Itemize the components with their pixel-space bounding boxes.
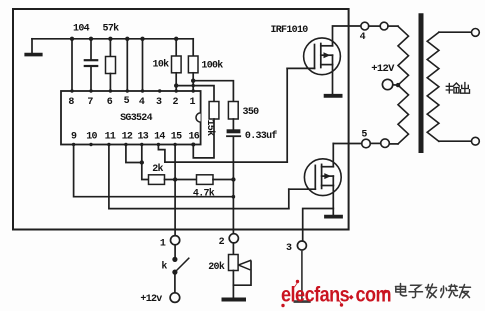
svg-text:+12V: +12V [371, 63, 395, 75]
pin 15 dot [173, 143, 176, 146]
wire terminal 2 to potentiometer [232, 243, 234, 255]
resistor 350 [228, 102, 238, 120]
wire +12V tap [393, 84, 398, 86]
wire secondary bottom lead [439, 140, 472, 142]
svg-text:SG3524: SG3524 [120, 113, 153, 124]
svg-text:k: k [161, 261, 167, 273]
svg-text:4.7k: 4.7k [193, 187, 215, 199]
Q1 source stub [321, 64, 333, 66]
resistor 2k [149, 175, 165, 185]
wire resistor 10k top lead [175, 39, 177, 56]
transformer T1 secondary winding [427, 32, 439, 141]
node junction rail pin8 [70, 37, 74, 41]
node junction rail pin4 [140, 37, 144, 41]
pin 6 dot [109, 89, 112, 92]
svg-text:104: 104 [73, 24, 90, 35]
Q1 gate lead [287, 67, 314, 69]
resistor 100k [188, 56, 198, 73]
terminal 4 circle a [361, 22, 369, 30]
wire cap 0.33uf bottom down to 4.7k junction [232, 137, 234, 180]
potentiometer 20k body [229, 255, 239, 271]
wire pot bottom to ground [232, 271, 234, 298]
pin 16 dot [191, 143, 195, 147]
resistor 15k [209, 102, 219, 120]
wire Q2 drain up to terminal 5 [332, 144, 334, 167]
wire resistor 10k bottom lead to pin2 [175, 73, 177, 91]
svg-text:12: 12 [122, 132, 133, 143]
svg-text:11: 11 [105, 132, 116, 143]
wire cap C1 bottom lead to pin7 [90, 67, 92, 91]
wire between terminal 5 circles [370, 142, 380, 144]
Q2 gate bar [314, 165, 316, 189]
terminal +12V circle [382, 79, 392, 89]
wire secondary top lead [439, 31, 472, 33]
terminal 2 circle [229, 234, 238, 243]
pin 11 dot [107, 143, 110, 146]
svg-text:16: 16 [188, 132, 199, 143]
IC notch right edge [196, 113, 201, 122]
svg-text:9: 9 [71, 132, 77, 143]
svg-text:8: 8 [68, 97, 74, 108]
svg-text:3: 3 [156, 97, 162, 108]
glyph 发 [426, 284, 437, 298]
svg-text:3: 3 [286, 243, 292, 254]
svg-text:7: 7 [87, 97, 93, 108]
wire resistor 57k bottom lead to pin6 [109, 74, 111, 92]
node junction pin9/terminal2 net [232, 195, 236, 199]
node junction pin2/15k [174, 83, 178, 87]
wire 15k bottom jog to pin16 [193, 119, 214, 158]
svg-text:15: 15 [171, 132, 182, 143]
ground (top-left) [26, 53, 41, 57]
svg-text:5: 5 [361, 130, 367, 141]
svg-text:1: 1 [190, 97, 196, 108]
svg-text:14: 14 [154, 132, 165, 143]
wire resistor 100k top lead (rail end) [192, 39, 194, 56]
node junction rail 57k [108, 37, 112, 41]
wire resistor 57k top lead [109, 39, 111, 57]
wire pin4 to rail [142, 39, 144, 91]
wire pin8 to rail [71, 39, 73, 91]
glyph 烧 [441, 285, 458, 298]
svg-text:IRF1010: IRF1010 [270, 25, 308, 36]
node junction pin12/pin13 [140, 160, 144, 164]
terminal +12v circle [170, 293, 180, 303]
wire 4.7k right to cap/terminal2 net [213, 179, 233, 181]
terminal output top circle [472, 29, 480, 37]
wire terminal2 net down to terminal 2 [232, 180, 234, 234]
svg-text:20k: 20k [208, 261, 225, 273]
wire bottom gate riser [288, 189, 290, 208]
Q2 gate lead [289, 188, 316, 190]
wire pin15 down to terminal 1 [174, 145, 176, 236]
wire pin5 to rail [126, 39, 128, 91]
wire pin1 net to resistor 350 [193, 81, 233, 102]
pin 13 dot [140, 143, 143, 146]
svg-text:elecfans: elecfans [281, 283, 350, 307]
terminal 1 circle [171, 236, 180, 245]
pin 10 dot [89, 143, 92, 146]
terminal 3 circle [297, 241, 306, 250]
svg-text:2: 2 [173, 97, 179, 108]
wire 2k right to 4.7k left [165, 179, 197, 181]
svg-text:350: 350 [243, 107, 260, 118]
terminal 5 circle a [362, 139, 371, 148]
capacitor C2 plate 2 [227, 135, 240, 137]
wire cap C1 top lead [90, 39, 92, 60]
Q2 drain stub [322, 166, 334, 168]
wire terminal 1 to switch [174, 245, 176, 260]
capacitor C1 104 [85, 59, 97, 61]
transformer core bar [419, 16, 424, 151]
border frame of circuit box [13, 9, 349, 230]
node junction 4.7k/cap/terminal2 [231, 177, 235, 181]
wire Q2 source down to ground [332, 186, 334, 215]
wire pin11 down and right to bottom gate riser [109, 145, 289, 209]
node junction pin1/350 [191, 79, 195, 83]
wire wiper to bottom lead [233, 261, 251, 285]
wire terminal 3 riser to Q2 source [303, 209, 334, 242]
Q1 drain stub [321, 45, 333, 47]
resistor 4.7k [197, 175, 214, 185]
terminal 5 circle b [381, 139, 390, 148]
label 电子发烧友 hand-drawn glyphs [396, 284, 471, 299]
pin 8 dot [70, 89, 73, 92]
terminal 4 circle b [380, 22, 388, 30]
svg-text:2k: 2k [152, 163, 163, 175]
wire Q1 drain up to terminal 4 [333, 26, 361, 46]
wire terminal 4 to transformer primary [388, 25, 398, 27]
wire pin12 jog to pin13 [126, 145, 142, 163]
wire switch to +12v terminal [174, 272, 176, 293]
node crossing blob pin1 vertical [192, 84, 195, 87]
transformer T1 primary winding [398, 26, 409, 144]
Q1 body stub with arrow [321, 54, 333, 56]
ground stub end bar [295, 300, 310, 303]
wire terminal 3 lower stub [301, 250, 303, 301]
wire ground rail top [32, 38, 193, 40]
pin 4 dot [141, 89, 144, 92]
wire resistor 100k bottom lead to pin1 [192, 73, 194, 91]
wire pin9 down and right to terminal2 net [74, 145, 234, 197]
node junction rail pin5 [125, 37, 129, 41]
svg-text:+12v: +12v [140, 294, 162, 305]
pin 9 dot [72, 143, 75, 146]
glyph 友 [460, 285, 471, 299]
Q1 source internal vertical [332, 55, 334, 64]
potentiometer wiper arrow [239, 260, 251, 265]
pin 5 dot [126, 89, 129, 92]
wire pin14 long run to top gate riser [165, 161, 287, 163]
pin 14 dot [157, 143, 160, 146]
svg-text:com: com [356, 283, 392, 307]
svg-text:5: 5 [124, 96, 130, 107]
label 输出 (output) hand-drawn glyphs [446, 83, 469, 94]
Q2 source internal vertical [332, 176, 334, 185]
wire ground drop [31, 39, 33, 53]
wire 350 to capacitor 0.33uf [232, 119, 234, 129]
wire primary bottom to terminal 5 [389, 143, 398, 145]
pin 3 dot [158, 89, 161, 92]
pin 1 dot [192, 89, 195, 92]
switch k blade [175, 258, 189, 272]
node junction pin15 on 2k-4.7k wire [173, 177, 177, 181]
svg-text:13: 13 [137, 132, 148, 143]
transistor Q1 IRF1010 top: circle [304, 38, 341, 75]
glyph 出 [461, 83, 470, 94]
glyph 输 [446, 83, 459, 93]
glyph 子 [409, 285, 423, 297]
wire top gate riser [286, 68, 288, 162]
Q1 arrow head [324, 52, 331, 58]
ground (Q1 source) [326, 94, 341, 98]
Q2 body stub with arrow [322, 175, 334, 177]
node junction rail cap104 [89, 37, 93, 41]
svg-text:57k: 57k [103, 23, 120, 35]
terminal output bottom circle [472, 137, 480, 145]
node switch lower contact [172, 270, 177, 275]
svg-text:4: 4 [360, 32, 366, 43]
resistor 10k [172, 56, 182, 73]
Q2 source stub [322, 185, 334, 187]
svg-text:4: 4 [139, 97, 145, 108]
svg-text:1: 1 [160, 239, 166, 250]
transistor Q2 IRF1010 bottom: circle [304, 159, 341, 196]
ground (Q2 source) [326, 215, 341, 219]
Q1 gate bar [314, 45, 316, 69]
wire pin13 down to 2k [142, 145, 149, 180]
svg-text:10k: 10k [153, 59, 170, 71]
op-amp U1 SG3524 IC body [61, 91, 201, 145]
wire pin2 net to resistor 15k [176, 86, 214, 102]
wire Q1 source down to ground [332, 65, 334, 94]
node switch upper contact [172, 257, 177, 262]
glyph 电 [396, 284, 407, 296]
svg-text:100k: 100k [201, 59, 223, 71]
svg-text:0.33uf: 0.33uf [245, 130, 278, 142]
resistor 57k [106, 57, 116, 74]
logo decoration dots [282, 280, 387, 307]
wire between terminal 4 circles [369, 25, 381, 27]
node junction rail 10k [174, 37, 178, 41]
node junction center tap [396, 83, 400, 87]
Q2 channel bar [321, 164, 323, 188]
pin 2 dot [175, 89, 178, 92]
svg-text:2: 2 [219, 237, 225, 248]
svg-text:6: 6 [107, 97, 113, 108]
svg-text:10: 10 [86, 132, 97, 143]
wire pin14 jog [158, 145, 165, 163]
logo elecfans.com [281, 283, 391, 307]
pin 7 dot [89, 89, 92, 92]
wire terminal 5 to Q2 drain [333, 143, 361, 145]
capacitor C2 0.33uf polarized plate [227, 129, 241, 133]
ground (potentiometer) [224, 298, 245, 302]
Q1 channel bar [320, 44, 322, 68]
pin 12 dot [124, 143, 127, 146]
Q2 arrow head [324, 173, 331, 179]
